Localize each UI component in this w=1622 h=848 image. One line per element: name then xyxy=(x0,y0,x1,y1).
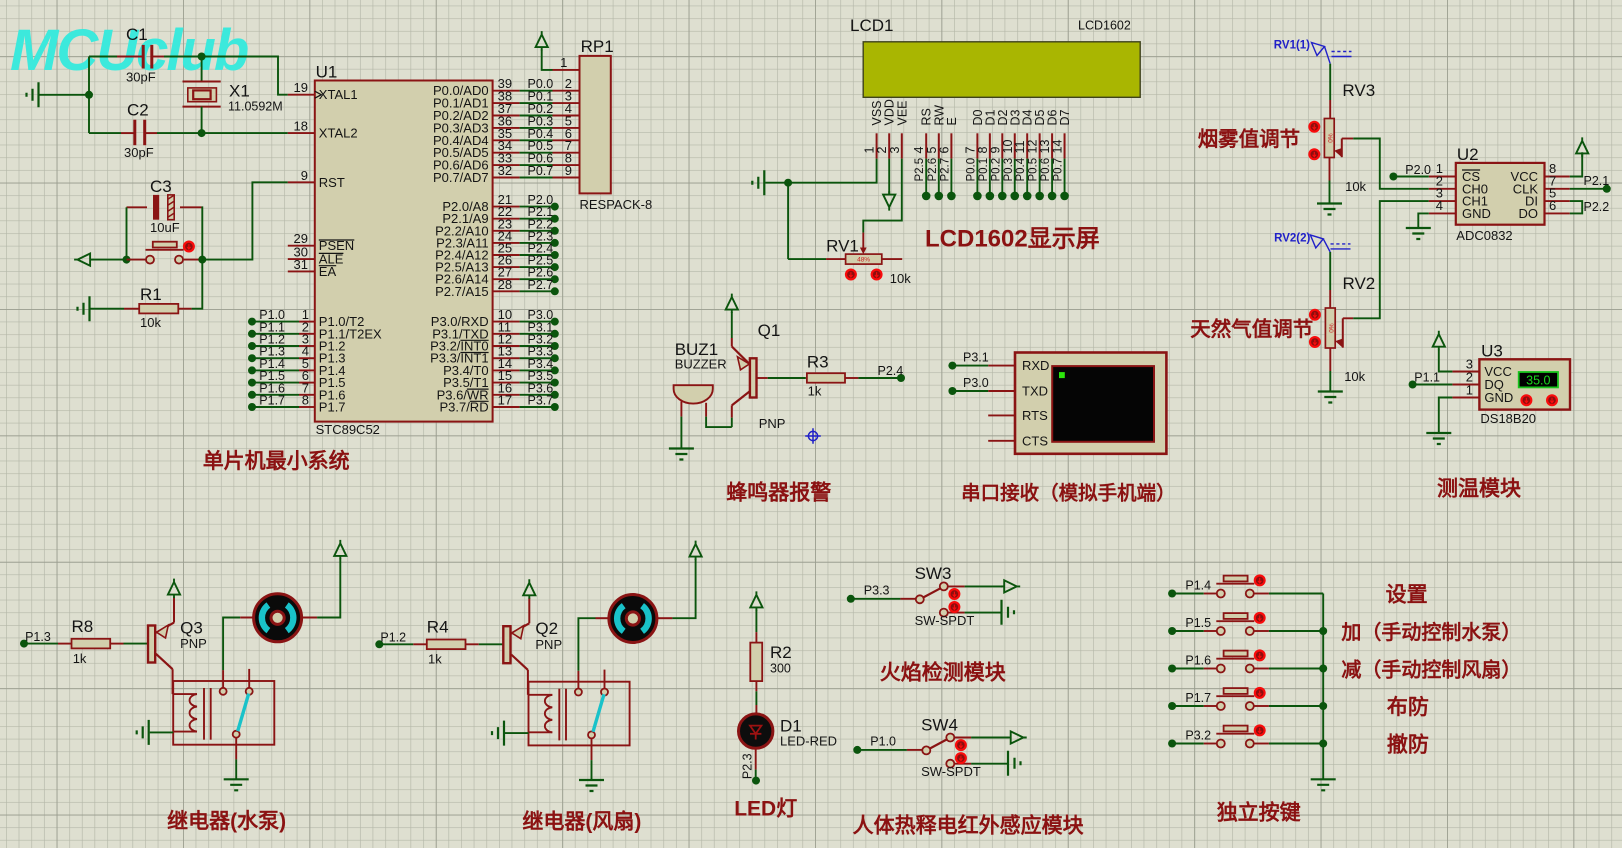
LCD pin 2 VDD xyxy=(888,133,890,158)
svg-text:RESPACK-8: RESPACK-8 xyxy=(580,197,653,212)
wire common to motor xyxy=(223,618,240,671)
pin 39 P0.0 xyxy=(493,90,520,92)
svg-text:RV3: RV3 xyxy=(1342,81,1375,100)
svg-text:D7: D7 xyxy=(1058,109,1072,125)
LCD wire P0.5 xyxy=(1039,159,1041,196)
svg-text:XTAL2: XTAL2 xyxy=(319,126,358,141)
svg-text:P0.7: P0.7 xyxy=(1053,158,1065,182)
wire VSS to ground xyxy=(788,159,877,183)
svg-text:C3: C3 xyxy=(150,177,172,196)
LCD wire P0.1 xyxy=(989,159,991,196)
LCD pin 9 D2 xyxy=(1001,133,1003,158)
svg-text:P0.3: P0.3 xyxy=(1003,158,1015,182)
capacitor C1 xyxy=(142,45,145,69)
ground (switch) xyxy=(1002,600,1015,625)
ground (R1) xyxy=(78,296,90,321)
svg-text:0%: 0% xyxy=(1329,323,1336,333)
wire collector to relay coil xyxy=(172,669,174,694)
pin 15 P3.5 xyxy=(493,382,520,384)
svg-text:P2.4: P2.4 xyxy=(878,364,904,378)
svg-text:加（手动控制水泵）: 加（手动控制水泵） xyxy=(1340,620,1521,644)
serial pin TXD xyxy=(988,390,1015,392)
ground (relay) xyxy=(224,779,249,790)
transistor Q3 PNP xyxy=(148,626,155,663)
svg-text:1k: 1k xyxy=(808,383,822,398)
LCD pin 1 VSS xyxy=(876,133,878,158)
power VCC arrow (Q1) xyxy=(726,294,738,313)
pin 27 P2.6 xyxy=(493,278,520,280)
power arrow right xyxy=(1001,580,1020,592)
power VCC arrow (motor) xyxy=(690,541,702,560)
wire to switch xyxy=(857,749,907,751)
U2 pin 4 GND xyxy=(1429,212,1456,214)
svg-text:P0.6: P0.6 xyxy=(1040,158,1052,182)
svg-text:P1.3: P1.3 xyxy=(25,630,51,644)
power VCC arrow (U2) xyxy=(1576,137,1588,156)
potentiometer RV2 xyxy=(1329,252,1331,290)
svg-text:10k: 10k xyxy=(1344,369,1365,384)
pin 36 P0.3 xyxy=(493,127,520,129)
svg-text:串口接收（模拟手机端）: 串口接收（模拟手机端） xyxy=(961,482,1176,505)
LCD pin 11 D4 xyxy=(1026,133,1028,158)
wire to R2 xyxy=(755,610,757,632)
wire VDD to power xyxy=(888,159,890,196)
svg-text:Q1: Q1 xyxy=(758,321,781,340)
svg-text:1: 1 xyxy=(1466,383,1473,398)
potentiometer RV3 xyxy=(1329,64,1331,100)
svg-text:R2: R2 xyxy=(770,643,792,662)
wire RV2 bottom to ground xyxy=(1329,348,1331,371)
capacitor C3 (electrolytic) xyxy=(127,206,148,208)
svg-text:单片机最小系统: 单片机最小系统 xyxy=(203,449,350,473)
relay moving contact + lever xyxy=(588,731,595,738)
svg-text:19: 19 xyxy=(294,80,308,95)
wire to switch xyxy=(851,598,901,600)
power VCC arrow (U3) xyxy=(1433,331,1445,350)
ground (relay) xyxy=(579,780,604,791)
svg-text:LED灯: LED灯 xyxy=(734,798,797,821)
wire throw2 to ground xyxy=(971,763,1008,765)
pin 34 P0.5 xyxy=(493,152,520,154)
svg-text:P0.2: P0.2 xyxy=(990,158,1002,182)
resistor R8 xyxy=(58,643,72,645)
net label P1.0 xyxy=(853,746,861,754)
wire collector to relay coil xyxy=(527,670,529,695)
pin 31 EA xyxy=(288,270,315,272)
temperature sensor U3 DS18B20 xyxy=(1479,359,1570,409)
wire arrow to node xyxy=(93,259,127,261)
U3 pin 2 DQ xyxy=(1452,384,1479,386)
pin 38 P0.1 xyxy=(493,102,520,104)
svg-text:E: E xyxy=(945,117,959,125)
junction xyxy=(198,256,206,264)
reset push button xyxy=(127,259,147,261)
svg-text:11.0592M: 11.0592M xyxy=(228,100,283,114)
pin 16 P3.6 xyxy=(493,394,520,396)
ground (RV2) xyxy=(1318,392,1343,403)
svg-text:撤防: 撤防 xyxy=(1387,733,1429,757)
svg-text:RV2(2): RV2(2) xyxy=(1274,233,1310,245)
svg-text:U1: U1 xyxy=(316,63,338,82)
relay xyxy=(529,682,630,746)
LCD pin 3 VEE xyxy=(901,133,903,158)
wire U2 CLK to P2.1 xyxy=(1570,188,1607,190)
svg-text:RV1(1): RV1(1) xyxy=(1274,40,1310,52)
svg-text:PNP: PNP xyxy=(535,637,562,652)
wire U2 GND to ground xyxy=(1418,213,1429,227)
svg-text:P0.7/AD7: P0.7/AD7 xyxy=(433,170,489,185)
svg-text:4: 4 xyxy=(1436,198,1443,213)
resistor pack RP1 RESPACK-8 xyxy=(580,56,611,194)
svg-text:VEE: VEE xyxy=(895,100,909,125)
wire RV1 left to VSS node xyxy=(787,183,789,259)
wire motor to power xyxy=(317,558,340,617)
LCD pin 7 D0 xyxy=(976,133,978,158)
U2 pin 5 DI xyxy=(1545,200,1570,202)
capacitor C2 xyxy=(133,120,136,146)
wire to resistor xyxy=(24,643,58,645)
svg-text:P2.6: P2.6 xyxy=(927,158,939,182)
svg-text:P2.7: P2.7 xyxy=(528,278,554,292)
wire VCC to Q1 emitter xyxy=(731,312,733,338)
LCD wire P0.0 xyxy=(976,159,978,196)
pin 5 P1.4 xyxy=(248,366,256,374)
net label P1.2 xyxy=(375,640,383,648)
svg-text:P0.7: P0.7 xyxy=(528,164,554,178)
svg-text:31: 31 xyxy=(294,257,308,272)
svg-text:17: 17 xyxy=(498,393,512,408)
serial port module (virtual terminal) xyxy=(1015,353,1166,454)
svg-text:30pF: 30pF xyxy=(124,145,154,160)
LCD wire P0.3 xyxy=(1014,159,1016,196)
U2 pin 6 DO xyxy=(1545,212,1570,214)
wire X1 bottom xyxy=(201,107,203,134)
transistor Q2 PNP xyxy=(503,626,510,663)
net label P1.3 xyxy=(20,640,28,648)
svg-text:RXD: RXD xyxy=(1022,358,1049,373)
potentiometer RV1 xyxy=(862,233,864,252)
ground (LCD VSS) xyxy=(752,170,764,195)
key button P1.6 xyxy=(1168,665,1176,673)
pin 25 P2.4 xyxy=(493,254,520,256)
ground (U3) xyxy=(1426,433,1451,444)
wire to resistor xyxy=(379,643,413,645)
U2 pin 3 CH1 xyxy=(1429,200,1456,202)
svg-text:P3.1: P3.1 xyxy=(963,351,989,365)
svg-text:天然气值调节: 天然气值调节 xyxy=(1190,317,1313,341)
serial pin CTS xyxy=(988,440,1015,442)
svg-text:测温模块: 测温模块 xyxy=(1437,477,1522,501)
ground (keypad) xyxy=(1311,779,1336,790)
pin 33 P0.6 xyxy=(493,164,520,166)
key button P1.5 xyxy=(1168,627,1176,635)
relay common contact xyxy=(222,670,224,688)
relay xyxy=(173,681,274,745)
RV1 knobs xyxy=(845,269,857,281)
wire gnd to node xyxy=(40,94,90,96)
transistor Q1 PNP xyxy=(731,338,733,347)
relay NO contact xyxy=(604,670,606,689)
svg-text:P1.0: P1.0 xyxy=(870,734,896,748)
svg-text:14: 14 xyxy=(1051,140,1065,154)
svg-text:P2.1: P2.1 xyxy=(1584,174,1610,188)
wire Q1 base xyxy=(757,377,768,379)
svg-text:Q3: Q3 xyxy=(180,619,203,638)
ground (crystal net) xyxy=(27,82,39,107)
svg-text:1k: 1k xyxy=(73,651,87,666)
switch SW4 SW-SPDT xyxy=(922,734,971,768)
svg-text:SW-SPDT: SW-SPDT xyxy=(921,764,981,779)
svg-text:C2: C2 xyxy=(127,101,149,120)
svg-text:继电器(水泵): 继电器(水泵) xyxy=(167,809,286,833)
pin 3 P1.2 xyxy=(248,342,256,350)
ground (relay coil) xyxy=(137,720,149,745)
svg-text:35.0: 35.0 xyxy=(1526,373,1550,387)
power VCC arrow (RP1) xyxy=(536,31,548,50)
pin 6 P1.5 xyxy=(248,379,256,387)
svg-text:P0.5: P0.5 xyxy=(1028,158,1040,182)
pin 37 P0.2 xyxy=(493,115,520,117)
pin 11 P3.1 xyxy=(493,333,520,335)
svg-text:P1.6: P1.6 xyxy=(1185,654,1211,668)
wire motor to power xyxy=(672,559,695,618)
junction xyxy=(784,179,792,187)
pin 14 P3.4 xyxy=(493,369,520,371)
svg-text:9: 9 xyxy=(301,168,308,183)
svg-text:8: 8 xyxy=(302,393,309,408)
junction xyxy=(1319,702,1327,710)
wire U3 VCC to power xyxy=(1439,350,1453,372)
svg-text:人体热释电红外感应模块: 人体热释电红外感应模块 xyxy=(853,814,1085,838)
svg-text:LCD1602显示屏: LCD1602显示屏 xyxy=(925,226,1100,253)
svg-text:R3: R3 xyxy=(807,352,829,371)
svg-text:10k: 10k xyxy=(890,271,911,286)
svg-text:LCD1602: LCD1602 xyxy=(1078,19,1131,33)
LCD wire P0.4 xyxy=(1026,159,1028,196)
svg-text:DS18B20: DS18B20 xyxy=(1480,411,1536,426)
svg-text:6: 6 xyxy=(1549,198,1556,213)
LCD wire P0.7 xyxy=(1064,159,1066,196)
wire moving contact to ground xyxy=(235,738,237,760)
svg-text:P1.5: P1.5 xyxy=(1185,616,1211,630)
wire vertical C1/C2 branch xyxy=(88,57,90,134)
svg-text:RTS: RTS xyxy=(1022,408,1048,423)
pin 24 P2.3 xyxy=(493,242,520,244)
svg-text:P3.3: P3.3 xyxy=(864,583,890,597)
svg-text:28: 28 xyxy=(498,277,512,292)
svg-text:P1.4: P1.4 xyxy=(1185,579,1211,593)
switch SW3 SW-SPDT xyxy=(916,582,965,616)
svg-text:P2.2: P2.2 xyxy=(1584,200,1610,214)
wire RST net xyxy=(202,182,287,259)
svg-text:48%: 48% xyxy=(857,257,870,264)
pin 21 P2.0 xyxy=(493,206,520,208)
U2 pin 7 CLK xyxy=(1545,188,1570,190)
relay moving contact + lever xyxy=(233,731,240,738)
wire throw1 to power arrow xyxy=(971,737,1009,739)
power arrow down (LCD VDD) xyxy=(883,191,895,210)
ground (U2) xyxy=(1406,228,1431,239)
wire RV3 bottom to ground xyxy=(1329,158,1331,181)
resistor R4 xyxy=(413,643,427,645)
wire VCC to pin1 xyxy=(542,50,553,70)
pin 32 P0.7 xyxy=(493,177,520,179)
LCD wire P2.5 xyxy=(925,159,927,196)
pin 28 P2.7 xyxy=(493,290,520,292)
ground (switch) xyxy=(1008,751,1021,776)
U3 knobs xyxy=(1520,394,1532,406)
wire moving contact to ground xyxy=(591,738,593,760)
LCD pin 8 D1 xyxy=(989,133,991,158)
junction xyxy=(198,129,206,137)
svg-text:U3: U3 xyxy=(1481,342,1503,361)
LCD wire P2.7 xyxy=(950,159,952,196)
ground (buzzer) xyxy=(669,449,694,460)
wire RV3 wiper to U2 CH0 xyxy=(1341,139,1343,158)
motor xyxy=(596,617,609,619)
svg-text:P3.2: P3.2 xyxy=(1185,729,1211,743)
LCD wire P0.6 xyxy=(1051,159,1053,196)
wire RV2 wiper to U2 CH1 xyxy=(1342,318,1344,347)
svg-text:3: 3 xyxy=(888,147,902,154)
ground (RV3) xyxy=(1317,204,1342,215)
svg-text:P3.7: P3.7 xyxy=(528,394,554,408)
svg-text:LCD1: LCD1 xyxy=(850,16,893,35)
motor xyxy=(240,617,253,619)
svg-text:10k: 10k xyxy=(1345,179,1366,194)
svg-text:RST: RST xyxy=(319,175,345,190)
svg-text:SW3: SW3 xyxy=(915,564,952,583)
buzzer BUZ1 xyxy=(674,385,713,403)
pin 2 P1.1 xyxy=(248,330,256,338)
pin 29 PSEN xyxy=(288,245,315,247)
svg-text:布防: 布防 xyxy=(1387,695,1429,719)
wire throw2 to ground xyxy=(965,612,1002,614)
svg-text:P2.0: P2.0 xyxy=(1405,163,1431,177)
wire U2 DI/DO joined P2.2 xyxy=(1570,201,1582,213)
pin 1 RP1 xyxy=(553,69,580,71)
power arrow left (reset) xyxy=(74,254,93,266)
svg-text:32: 32 xyxy=(498,163,512,178)
svg-text:P1.7: P1.7 xyxy=(1185,691,1211,705)
svg-text:STC89C52: STC89C52 xyxy=(316,422,380,437)
pin 19 XTAL1 xyxy=(288,94,315,96)
svg-text:PNP: PNP xyxy=(180,636,207,651)
svg-text:P2.7/A15: P2.7/A15 xyxy=(435,284,489,299)
svg-text:R1: R1 xyxy=(140,285,162,304)
svg-text:LED-RED: LED-RED xyxy=(780,734,837,749)
svg-text:P3.0: P3.0 xyxy=(963,376,989,390)
pin 9 RST xyxy=(288,181,315,183)
power VCC arrow (Q2) xyxy=(523,579,535,598)
wire base xyxy=(124,643,149,645)
relay NO contact xyxy=(248,669,250,688)
net label P2.4 xyxy=(897,374,905,382)
LCD pin 10 D3 xyxy=(1014,133,1016,158)
pin 30 ALE xyxy=(288,258,315,260)
key button P1.7 xyxy=(1168,702,1176,710)
svg-text:GND: GND xyxy=(1462,206,1491,221)
svg-text:GND: GND xyxy=(1484,390,1513,405)
svg-text:火焰检测模块: 火焰检测模块 xyxy=(880,661,1007,685)
svg-text:ADC0832: ADC0832 xyxy=(1456,228,1512,243)
LCD pin 5 RW xyxy=(938,133,940,158)
svg-text:30pF: 30pF xyxy=(126,70,156,85)
wire buzzer right to collector xyxy=(706,417,732,428)
serial pin RXD xyxy=(988,365,1015,367)
crystal X1 xyxy=(183,81,221,83)
svg-text:P2.3: P2.3 xyxy=(741,753,755,779)
wire LED to P2.3 xyxy=(755,748,757,769)
svg-text:U2: U2 xyxy=(1457,145,1479,164)
wire P3.1 to RXD xyxy=(948,362,956,370)
key button P3.2 xyxy=(1168,740,1176,748)
net label P3.3 xyxy=(847,595,855,603)
svg-text:XTAL1: XTAL1 xyxy=(319,87,358,102)
resistor R2 xyxy=(755,632,757,643)
junction xyxy=(85,91,93,99)
svg-text:PNP: PNP xyxy=(759,416,786,431)
U3 display 35.0 xyxy=(1519,372,1558,387)
pin 4 P1.3 xyxy=(248,354,256,362)
power VCC arrow (Q3) xyxy=(168,579,180,598)
LCD pin 13 D6 xyxy=(1051,133,1053,158)
junction node X1 top xyxy=(198,53,206,61)
svg-text:P0.0: P0.0 xyxy=(965,158,977,182)
svg-text:设置: 设置 xyxy=(1386,584,1428,607)
wire XTAL1 net xyxy=(89,56,117,58)
junction xyxy=(1319,665,1327,673)
pin 23 P2.2 xyxy=(493,230,520,232)
pin 18 XTAL2 xyxy=(288,132,315,134)
U3 pin 3 VCC xyxy=(1452,371,1479,373)
wire VEE to RV1 wiper xyxy=(863,159,902,233)
wire Q1 collector xyxy=(731,405,733,417)
pin 22 P2.1 xyxy=(493,218,520,220)
wire U3 GND to ground xyxy=(1439,398,1453,433)
MCU U1 STC89C52 xyxy=(315,81,493,422)
LCD pin 14 D7 xyxy=(1064,133,1066,158)
svg-text:继电器(风扇): 继电器(风扇) xyxy=(522,810,641,834)
wire throw1 to power arrow xyxy=(965,585,1003,587)
wire buzzer left to ground xyxy=(680,417,682,448)
junction xyxy=(123,256,131,264)
U3 pin 1 GND xyxy=(1452,397,1479,399)
svg-text:6: 6 xyxy=(937,147,951,154)
relay common contact xyxy=(577,671,579,689)
ground (relay coil) xyxy=(492,721,504,746)
LCD wire P0.2 xyxy=(1001,159,1003,196)
wire U2 VCC to power xyxy=(1570,152,1582,176)
wire XTAL2 net xyxy=(89,132,121,134)
wire R2 to LED xyxy=(755,691,757,705)
resistor R1 xyxy=(90,308,125,310)
resistor R3 xyxy=(806,377,807,379)
svg-text:RV2: RV2 xyxy=(1343,274,1376,293)
ADC U2 ADC0832 xyxy=(1456,163,1545,225)
svg-text:SW4: SW4 xyxy=(921,715,958,734)
wire P1.1 to DQ xyxy=(1409,381,1417,389)
svg-text:9: 9 xyxy=(565,163,572,178)
svg-text:RV1: RV1 xyxy=(826,237,859,256)
pin 35 P0.4 xyxy=(493,139,520,141)
net label P2.0 xyxy=(1389,173,1397,181)
pin 10 P3.0 xyxy=(493,321,520,323)
svg-text:蜂鸣器报警: 蜂鸣器报警 xyxy=(726,481,831,505)
svg-text:减（手动控制风扇）: 减（手动控制风扇） xyxy=(1341,658,1521,682)
power arrow right xyxy=(1007,731,1026,743)
power VCC arrow (LED) xyxy=(750,591,762,610)
